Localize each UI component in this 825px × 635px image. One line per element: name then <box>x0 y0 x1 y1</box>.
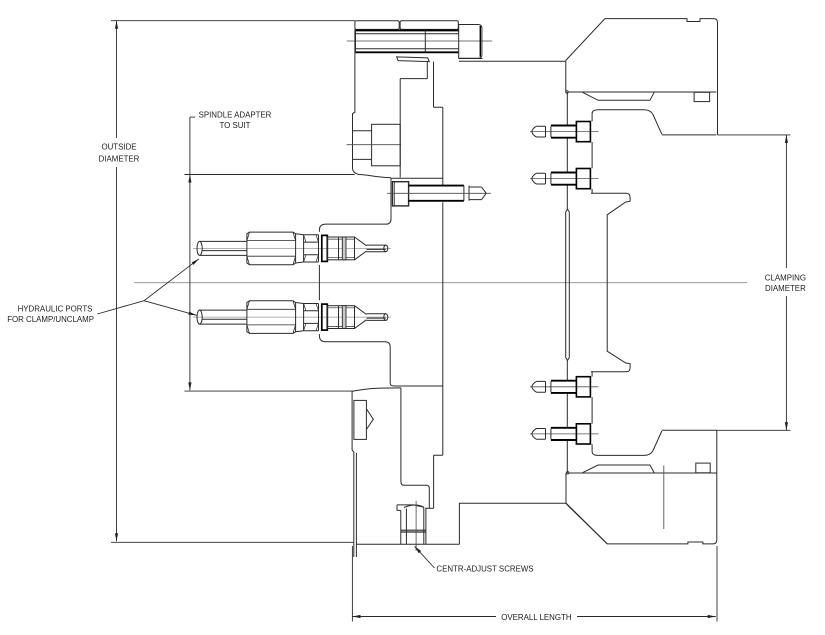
hydraulic fitting 2 <box>193 301 391 334</box>
svg-text:DIAMETER: DIAMETER <box>99 155 140 164</box>
lower inner profile <box>401 388 429 508</box>
outside-diameter dim line <box>116 21 118 542</box>
overall-length extension right <box>716 546 718 622</box>
arrowheads <box>115 21 118 29</box>
stud bolt shank <box>409 186 464 201</box>
socket screw 4 <box>530 424 599 444</box>
centr-adjust screw cap <box>397 505 414 511</box>
top cone trapezoid <box>583 92 655 100</box>
centr-adjust screw body <box>401 508 426 545</box>
svg-text:SPINDLE ADAPTER: SPINDLE ADAPTER <box>199 111 272 120</box>
leader centr-adjust <box>415 546 435 568</box>
top bolt centerline <box>347 40 492 42</box>
small notch square bottom <box>696 463 710 473</box>
svg-text:OVERALL LENGTH: OVERALL LENGTH <box>501 613 572 622</box>
spindle-adapter dim line <box>190 117 195 390</box>
stud bolt recess upper <box>319 178 443 386</box>
bottom face of gap <box>662 429 717 431</box>
top pocket <box>592 110 662 194</box>
flange bottom edge <box>352 388 401 391</box>
inner bottom face <box>569 472 717 474</box>
hydraulic fitting 1 <box>193 232 391 265</box>
lower right step <box>434 455 443 508</box>
top bolt shank <box>356 30 459 52</box>
socket screw 1 <box>530 122 599 142</box>
flange left edge upper <box>353 29 392 177</box>
centerline <box>134 282 747 284</box>
overall-length dim line <box>353 616 716 618</box>
overall-length extension left <box>351 546 353 622</box>
small notch square top <box>694 92 710 101</box>
outside-diameter extension top <box>111 20 355 22</box>
svg-text:CLAMPING: CLAMPING <box>765 274 806 283</box>
svg-text:CENTR-ADJUST SCREWS: CENTR-ADJUST SCREWS <box>436 565 533 574</box>
flange right face <box>442 107 444 455</box>
flange inner bore lines <box>400 62 427 178</box>
svg-text:DIAMETER: DIAMETER <box>765 284 806 293</box>
locating key <box>354 400 367 439</box>
right housing left edge top <box>565 60 567 92</box>
spindle-adapter extension bottom <box>184 390 353 392</box>
svg-text:TO SUIT: TO SUIT <box>220 121 251 130</box>
clamping-diameter extension top <box>718 134 791 136</box>
bottom pocket <box>592 372 662 456</box>
bottom face left <box>356 543 459 545</box>
lower strip <box>354 453 357 557</box>
washer under bolt <box>397 57 430 62</box>
bottom plate <box>459 503 607 544</box>
hidden bore line <box>663 466 665 530</box>
right housing bottom outline <box>567 430 717 544</box>
top bolt head <box>459 25 482 59</box>
right housing top outline <box>566 19 718 135</box>
spindle-adapter extension top <box>184 174 354 176</box>
housing top face line <box>459 60 566 62</box>
svg-text:FOR CLAMP/UNCLAMP: FOR CLAMP/UNCLAMP <box>7 315 94 324</box>
top face of gap <box>662 134 717 136</box>
clamping-diameter extension bottom <box>717 429 791 431</box>
top bolt plate 1 <box>355 21 399 30</box>
outside-diameter extension bottom <box>111 541 354 543</box>
bore relief top <box>591 193 630 372</box>
socket screw 2 <box>530 169 599 189</box>
face plate <box>566 92 568 473</box>
svg-text:HYDRAULIC PORTS: HYDRAULIC PORTS <box>18 304 93 313</box>
svg-text:OUTSIDE: OUTSIDE <box>101 143 136 152</box>
stud bolt head <box>393 182 409 206</box>
leader hydraulic ports <box>97 259 199 316</box>
lower-left edge <box>352 392 354 453</box>
bottom cone trapezoid <box>583 465 655 473</box>
clamping-diameter dim line <box>785 135 787 430</box>
socket screw 3 <box>530 377 599 397</box>
side screw pocket <box>372 124 401 166</box>
clamp element <box>566 209 570 360</box>
inner top face <box>569 91 717 93</box>
top bolt plate 2 <box>400 21 458 30</box>
